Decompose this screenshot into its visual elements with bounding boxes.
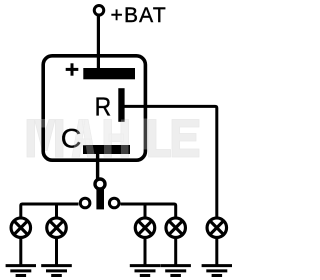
wire lamp L3 to ground [144,237,147,265]
MAHLE watermark (background layer) [27,120,199,158]
wire lamp L5 to ground [215,237,218,265]
wire branch to lamp L3 [144,204,147,217]
battery supply plate [83,68,135,79]
lamp L2 [47,218,67,238]
switch pivot [95,179,105,189]
relay box outline [43,56,145,160]
wire lamp L4 to ground [174,237,177,265]
lamp L4 [166,218,186,238]
ground G5 [202,266,233,276]
ground G4 [160,266,191,276]
svg-text:R: R [95,94,112,122]
ground G2 [41,266,72,276]
wire lamp L2 to ground [55,237,58,265]
terminal +BAT [94,6,104,16]
wire left contact to lamps L1 L2 [21,204,79,217]
switch contact right [109,198,119,208]
svg-text:+BAT: +BAT [111,4,167,27]
MAHLE watermark (translucent overlay on dark parts) [41,119,147,158]
wire C to switch pivot [96,154,99,180]
ground G3 [130,266,160,276]
wire R to lamp L5 [125,106,217,217]
switch lever [96,189,104,209]
plus polarity mark [66,63,79,75]
lamp L1 [11,218,31,238]
resistor plate R [118,88,124,122]
ground G1 [6,266,36,276]
lamp L5 [207,218,227,238]
switch contact left [80,198,90,208]
wire terminal to battery bar [97,16,100,70]
lamp L3 [135,218,155,238]
wire lamp L1 to ground [19,237,22,265]
capacitor plate C [83,145,130,154]
wire branch to lamp L2 [55,204,58,217]
wire right contact to lamps L3 L4 [121,204,176,217]
